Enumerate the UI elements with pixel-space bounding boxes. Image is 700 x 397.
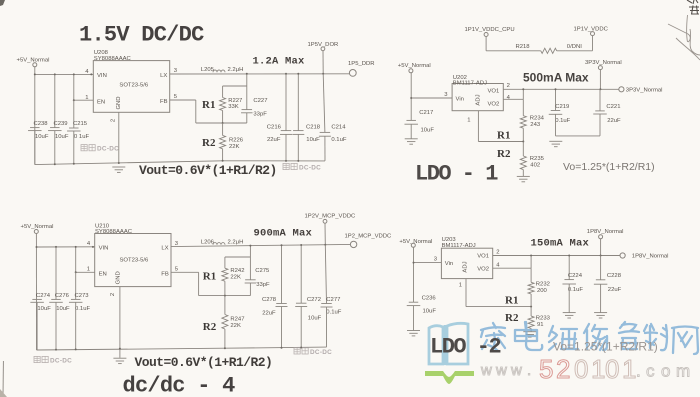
svg-text:Vo=1.25*(1+R2/R1): Vo=1.25*(1+R2/R1) xyxy=(563,161,655,173)
wire VIN rail xyxy=(35,73,94,75)
junction dot feed xyxy=(246,73,248,75)
wire FB stub xyxy=(170,99,196,101)
capacitor C227 xyxy=(246,86,248,110)
wire VO2 join vertical D xyxy=(530,256,532,269)
svg-text:10uF: 10uF xyxy=(35,134,49,140)
svg-text:C219: C219 xyxy=(555,104,569,110)
watermark char zi xyxy=(619,322,639,349)
svg-text:R2: R2 xyxy=(203,321,217,333)
wire FB to divider xyxy=(196,122,247,124)
svg-text:w: w xyxy=(510,362,522,379)
watermark book icon blue xyxy=(429,323,468,365)
op IC U210 box xyxy=(95,234,171,287)
svg-text:R1: R1 xyxy=(505,295,518,307)
wire C228 lower xyxy=(600,284,602,312)
capacitor C217 xyxy=(406,119,416,121)
svg-text:.: . xyxy=(636,362,641,381)
svg-text:R235: R235 xyxy=(530,156,545,162)
scan corner smudge bottom-left xyxy=(0,389,7,397)
wire C272 column xyxy=(300,245,302,303)
terminal 3P3V_Normal right xyxy=(619,87,624,92)
svg-text:DC-DC: DC-DC xyxy=(299,164,321,171)
pin dot VIN pin4 xyxy=(90,73,92,75)
svg-text:C227: C227 xyxy=(253,98,267,104)
svg-text:900mA Max: 900mA Max xyxy=(254,227,313,239)
ground symbol C236 xyxy=(407,330,420,332)
wire EN stub xyxy=(74,99,94,101)
svg-text:2: 2 xyxy=(111,119,117,122)
terminal +5V D xyxy=(411,243,415,247)
svg-text:VIN: VIN xyxy=(99,246,109,252)
wire VIN rail C xyxy=(37,246,95,248)
wire GND pin2 vertical xyxy=(118,112,120,163)
capacitor C239 xyxy=(50,127,60,129)
wire C236 lower xyxy=(413,306,415,331)
svg-text:C276: C276 xyxy=(55,293,70,299)
svg-text:ADJ: ADJ xyxy=(463,261,469,272)
svg-text:C224: C224 xyxy=(568,273,583,279)
handwriting vertical stroke xyxy=(686,15,689,42)
svg-text:w: w xyxy=(480,362,492,379)
ground symbol R235 xyxy=(517,175,530,177)
wire VO1 rail LDO1 xyxy=(503,88,619,90)
handwriting glyph corner 1 xyxy=(687,0,698,4)
wire R218 right xyxy=(557,50,593,52)
wire C277 column xyxy=(325,245,326,304)
wire C273 column upper xyxy=(75,247,77,272)
svg-text:R232: R232 xyxy=(536,282,550,288)
junction dot EN xyxy=(73,99,75,101)
svg-text:o: o xyxy=(661,362,670,381)
svg-text:FB: FB xyxy=(160,99,168,105)
junction dot rail C278 xyxy=(281,347,283,349)
svg-text:BM1117-ADJ: BM1117-ADJ xyxy=(453,81,487,87)
svg-text:+5V_Normal: +5V_Normal xyxy=(399,239,432,245)
wire FB stub C xyxy=(171,271,199,273)
resistor R226 xyxy=(222,123,224,135)
svg-text:3P3V_Normal: 3P3V_Normal xyxy=(585,60,622,66)
terminal 1P2V_MCP_VDDC xyxy=(323,219,327,223)
wire ADJ to divider D xyxy=(466,306,531,308)
svg-text:2: 2 xyxy=(507,83,510,89)
wire C277 lower xyxy=(326,307,328,347)
terminal +5V_Normal xyxy=(33,63,37,67)
svg-text:R233: R233 xyxy=(536,315,551,321)
wire VO1 rail D xyxy=(493,255,620,257)
svg-text:.: . xyxy=(527,362,531,379)
svg-text:R2: R2 xyxy=(202,137,216,149)
svg-text:10uF: 10uF xyxy=(56,306,70,312)
svg-text:33K: 33K xyxy=(228,104,239,110)
wire +5V vertical xyxy=(34,67,36,165)
handwriting curve 1 xyxy=(668,24,690,42)
svg-text:EN: EN xyxy=(97,100,105,106)
capacitor C218 xyxy=(293,130,304,132)
svg-text:C278: C278 xyxy=(262,297,277,303)
svg-text:R1: R1 xyxy=(202,99,215,111)
svg-text:0.1uF: 0.1uF xyxy=(555,118,570,124)
junction dot C218 xyxy=(297,73,299,75)
junction dot C219 xyxy=(555,88,557,90)
wire C217 lower xyxy=(410,124,412,139)
junction dot rail C216 xyxy=(285,160,287,162)
wire C221 bottom link xyxy=(556,135,601,137)
wire C215 column lower xyxy=(73,100,75,127)
wire C239 lower xyxy=(54,131,56,164)
svg-text:2: 2 xyxy=(110,293,116,296)
svg-text:GND: GND xyxy=(116,96,122,109)
svg-text:1.5V DC/DC: 1.5V DC/DC xyxy=(79,23,204,48)
capacitor C277 xyxy=(321,303,332,305)
svg-text:Vout=0.6V*(1+R1/R2): Vout=0.6V*(1+R1/R2) xyxy=(135,355,273,370)
svg-text:R1: R1 xyxy=(203,270,216,282)
junction dot VO join xyxy=(522,88,524,90)
wire R1C275 top rail xyxy=(225,256,251,258)
terminal 1P8V right xyxy=(620,253,625,258)
svg-text:243: 243 xyxy=(530,122,541,128)
svg-text:m: m xyxy=(676,362,690,381)
svg-text:33pF: 33pF xyxy=(253,112,267,118)
inductor L205 squiggle xyxy=(213,70,225,72)
wire C218 column xyxy=(297,74,299,131)
svg-text:22K: 22K xyxy=(229,144,240,150)
wire C274 lower xyxy=(36,302,38,350)
handwriting glyph corner 2 xyxy=(689,6,699,15)
svg-text:Vin: Vin xyxy=(456,96,464,102)
capacitor C273 xyxy=(71,298,81,300)
capacitor C278 xyxy=(276,303,287,305)
svg-text:LX: LX xyxy=(160,73,167,79)
junction dot rail pin2 C xyxy=(119,348,121,350)
wire VO2 stub xyxy=(503,98,523,100)
svg-text:1P2V_MCP_VDDC: 1P2V_MCP_VDDC xyxy=(305,213,356,219)
svg-text:1: 1 xyxy=(85,95,88,101)
ground symbol C224 xyxy=(563,312,576,314)
scan corner mark top-left xyxy=(0,0,5,6)
resistor R233 xyxy=(530,307,532,317)
svg-text:1: 1 xyxy=(459,282,462,288)
svg-text:L205: L205 xyxy=(201,67,215,73)
svg-text:1P5_DDR: 1P5_DDR xyxy=(348,61,375,67)
resistor R232 xyxy=(530,268,532,282)
resistor R235 xyxy=(522,142,524,157)
junction dot 1P8V rail xyxy=(600,255,602,257)
wire +5V vertical D xyxy=(413,247,415,302)
wire cpu vertical xyxy=(485,37,487,51)
svg-text:R227: R227 xyxy=(228,98,242,104)
wire vddc vertical xyxy=(592,36,594,51)
junction dot rail R226 xyxy=(222,160,224,162)
wire FB vertical C xyxy=(198,272,200,295)
watermark char wang xyxy=(672,327,698,355)
svg-text:R2: R2 xyxy=(497,148,511,160)
svg-text:1P1V_VDDC_CPU: 1P1V_VDDC_CPU xyxy=(465,27,515,33)
wire C273 column lower xyxy=(75,272,77,299)
ground symbol R233 xyxy=(523,331,536,333)
svg-text:VIN: VIN xyxy=(97,73,107,79)
ground rail C xyxy=(37,348,225,350)
junction dot Vin D xyxy=(413,262,415,264)
wire C238 lower xyxy=(34,131,36,165)
svg-text:R226: R226 xyxy=(229,138,244,144)
svg-text:DC-DC: DC-DC xyxy=(310,349,332,356)
wire VO2 stub D xyxy=(493,267,531,269)
terminal 1P2_MCP_VDDC xyxy=(350,241,356,247)
svg-text:91: 91 xyxy=(537,322,544,328)
stamp kaojin DC-DC 4 xyxy=(294,348,308,354)
wire 3P3V vertical xyxy=(599,70,601,90)
svg-text:w: w xyxy=(495,362,507,379)
terminal 1P5_DDR xyxy=(349,70,356,77)
ground rail input xyxy=(35,161,223,165)
svg-text:+5V_Normal: +5V_Normal xyxy=(21,224,54,230)
op IC U203 box xyxy=(441,248,492,278)
svg-text:1: 1 xyxy=(467,118,470,124)
ground symbol C217 xyxy=(405,138,418,140)
svg-text:0.1uF: 0.1uF xyxy=(331,137,346,143)
ground symbol U210 xyxy=(113,357,126,359)
wire C278 lower xyxy=(281,307,283,348)
capacitor C228 xyxy=(596,279,606,281)
svg-text:C238: C238 xyxy=(34,121,49,127)
terminal 1P8V top xyxy=(599,235,603,239)
op IC U202 box xyxy=(452,84,503,111)
capacitor C236 xyxy=(409,301,419,303)
resistor R234 xyxy=(522,99,524,115)
svg-text:LX: LX xyxy=(161,245,168,251)
wire LX output C xyxy=(171,244,351,246)
capacitor C216 xyxy=(281,130,292,132)
svg-text:C215: C215 xyxy=(73,121,88,127)
terminal 1P5V_DOR xyxy=(321,47,325,51)
wire +5V vertical C xyxy=(35,234,37,351)
wire C215 column upper xyxy=(73,74,75,100)
junction dot divider C xyxy=(224,295,226,297)
wire C239 column xyxy=(54,74,56,127)
pin dot VIN pin4 C xyxy=(92,246,94,248)
resistor R218 horizontal xyxy=(541,48,557,53)
svg-text:C239: C239 xyxy=(54,121,68,127)
svg-text:VO1: VO1 xyxy=(477,254,489,260)
wire R1C227 top rail xyxy=(223,85,247,87)
wire C278 column xyxy=(281,245,283,303)
junction dot divider LDO1 xyxy=(522,141,524,143)
svg-text:VO1: VO1 xyxy=(488,89,500,95)
wire ADJ vertical xyxy=(477,111,479,142)
wire C224 lower xyxy=(568,284,570,313)
svg-text:0.1uF: 0.1uF xyxy=(326,310,341,316)
svg-text:R218: R218 xyxy=(516,44,531,50)
svg-text:10uF: 10uF xyxy=(421,127,435,133)
junction dot C278 xyxy=(281,244,283,246)
wire 1P2V vertical xyxy=(324,223,326,245)
capacitor C221 xyxy=(595,110,605,112)
capacitor C274 xyxy=(32,298,42,300)
svg-text:Vin: Vin xyxy=(445,261,453,267)
svg-text:+5V_Normal: +5V_Normal xyxy=(17,58,50,64)
capacitor C219 xyxy=(551,110,561,112)
svg-text:R2: R2 xyxy=(505,312,519,324)
svg-text:C217: C217 xyxy=(419,110,433,116)
svg-text:EN: EN xyxy=(99,272,107,278)
wire FB vertical xyxy=(195,100,197,123)
ground symbol U208 xyxy=(112,166,125,168)
svg-text:c: c xyxy=(646,362,655,381)
svg-text:0/DNI: 0/DNI xyxy=(567,44,582,50)
svg-text:DC-DC: DC-DC xyxy=(50,357,72,364)
stamp kaojin DC-DC 2 xyxy=(283,163,297,169)
wire C214 column xyxy=(323,74,325,133)
svg-text:22K: 22K xyxy=(230,323,241,329)
wire C219 column xyxy=(555,89,557,110)
wire C224 column xyxy=(568,256,570,280)
svg-text:L206: L206 xyxy=(201,239,215,245)
svg-text:C236: C236 xyxy=(422,296,437,302)
svg-text:Vout=0.6V*(1+R1/R2): Vout=0.6V*(1+R1/R2) xyxy=(139,163,277,178)
terminal 1P1V_VDDC_CPU xyxy=(484,33,488,37)
junction dot rail C239 xyxy=(54,163,56,165)
svg-text:LDO -2: LDO -2 xyxy=(430,334,501,359)
svg-text:GND: GND xyxy=(115,271,121,284)
svg-text:C277: C277 xyxy=(326,297,340,303)
wire 1P8V vertical xyxy=(600,239,602,256)
wire C218 lower xyxy=(297,134,299,161)
svg-text:0 1uF: 0 1uF xyxy=(74,134,89,140)
svg-text:22K: 22K xyxy=(230,274,241,280)
svg-text:22uF: 22uF xyxy=(608,287,622,293)
watermark char liao xyxy=(644,324,667,350)
svg-text:10uF: 10uF xyxy=(55,134,69,140)
handwriting curve 3 xyxy=(676,38,700,60)
junction dot 3P3V rail xyxy=(599,88,601,90)
terminal 3P3V top xyxy=(598,66,602,70)
capacitor C276 xyxy=(51,298,61,300)
capacitor C238 xyxy=(30,127,40,129)
svg-text:VO2: VO2 xyxy=(488,101,500,107)
svg-text:1: 1 xyxy=(622,354,636,384)
svg-text:C274: C274 xyxy=(36,293,51,299)
wire ADJ vertical D xyxy=(465,279,467,307)
svg-text:10uF: 10uF xyxy=(308,316,322,322)
wire GND pin2 vertical C xyxy=(119,287,121,358)
svg-text:2.2μH: 2.2μH xyxy=(228,239,244,245)
svg-text:0.1uF: 0.1uF xyxy=(75,306,90,312)
wire ADJ to divider xyxy=(478,141,523,143)
svg-text:R247: R247 xyxy=(230,317,244,323)
resistor R247 xyxy=(224,296,226,315)
stamp kaojin DC-DC 1 xyxy=(81,145,95,151)
watermark char wei xyxy=(549,326,578,350)
svg-text:SY8088AAAC: SY8088AAAC xyxy=(94,56,132,62)
svg-text:C275: C275 xyxy=(255,268,270,274)
capacitor C215 xyxy=(69,127,79,129)
junction dot LX/1P5V xyxy=(322,73,324,75)
junction dot VIN xyxy=(34,73,36,75)
wire C276 column xyxy=(55,247,57,300)
svg-text:VO2: VO2 xyxy=(477,266,489,272)
junction dot C215 xyxy=(73,73,75,75)
wire R1C275 feed vertical xyxy=(249,246,251,257)
wire C215 lower xyxy=(73,131,75,164)
resistor R227 xyxy=(222,86,224,98)
svg-text:1P8V_Normal: 1P8V_Normal xyxy=(587,229,624,235)
capacitor C272 xyxy=(296,302,307,304)
svg-text:R242: R242 xyxy=(230,268,244,274)
wire C219 lower xyxy=(555,114,557,136)
capacitor C214 xyxy=(320,131,331,133)
wire C276 lower xyxy=(55,302,57,349)
junction dot feed C xyxy=(249,245,251,247)
svg-text:C216: C216 xyxy=(267,124,282,130)
svg-text:C273: C273 xyxy=(75,293,90,299)
svg-text:ADJ: ADJ xyxy=(476,94,482,105)
op IC U208 box xyxy=(93,61,169,113)
junction dot C224 xyxy=(568,255,570,257)
wire C216 lower xyxy=(285,134,287,161)
wire C216 column xyxy=(285,74,287,131)
watermark char jia xyxy=(481,323,505,351)
wire +5V vertical LDO1 xyxy=(410,73,412,121)
svg-text:SOT23-5/6: SOT23-5/6 xyxy=(119,82,149,88)
wire C228 column xyxy=(600,256,602,280)
wire C221 column xyxy=(599,89,601,111)
wire LX output xyxy=(170,73,350,75)
terminal 1P1V_VDDC xyxy=(591,32,595,36)
svg-text:1: 1 xyxy=(591,354,605,384)
inductor L206 squiggle xyxy=(213,243,225,245)
junction dot C276 xyxy=(55,246,57,248)
ground symbol C219 xyxy=(549,140,562,142)
svg-text:R1: R1 xyxy=(497,129,510,141)
svg-text:C272: C272 xyxy=(307,297,321,303)
svg-text:10uF: 10uF xyxy=(306,137,320,143)
svg-text:22uF: 22uF xyxy=(267,137,281,143)
capacitor C275 xyxy=(249,257,251,280)
junction dot rail C218 xyxy=(297,160,299,162)
svg-text:LDO - 1: LDO - 1 xyxy=(415,162,498,187)
svg-text:C221: C221 xyxy=(606,104,620,110)
junction dot VIN C xyxy=(36,246,38,248)
junction dot Vin branch xyxy=(410,97,412,99)
ground symbol C228 xyxy=(594,312,607,314)
junction dot rail C272 xyxy=(300,347,302,349)
svg-text:3P3V_Normal: 3P3V_Normal xyxy=(626,88,663,94)
svg-text:Vo=1.25*(1+R2/R1): Vo=1.25*(1+R2/R1) xyxy=(553,339,658,353)
watermark char dian xyxy=(515,322,542,350)
junction dot C239 xyxy=(54,73,56,75)
junction dot divider A xyxy=(222,122,224,124)
svg-text:SOT23-5/6: SOT23-5/6 xyxy=(120,257,150,263)
junction dot rail C215 xyxy=(73,163,75,165)
wire R218 net xyxy=(486,50,541,52)
svg-text:dc/dc - 4: dc/dc - 4 xyxy=(123,374,236,397)
svg-text:2: 2 xyxy=(496,249,499,255)
svg-text:500mA Max: 500mA Max xyxy=(523,70,589,84)
junction dot EN C xyxy=(75,271,77,273)
svg-text:0: 0 xyxy=(605,354,619,384)
svg-text:1P8V_Normal: 1P8V_Normal xyxy=(632,254,669,260)
wire C214 lower xyxy=(324,136,326,161)
wire VO2 join vertical xyxy=(522,89,524,99)
junction dot LX/1P2V xyxy=(324,244,326,246)
svg-text:SY8088AAAC: SY8088AAAC xyxy=(95,229,133,235)
wire C272 lower xyxy=(300,307,302,348)
svg-text:10uF: 10uF xyxy=(423,308,437,314)
wire Vin branch D xyxy=(414,262,442,264)
svg-text:1P2_MCP_VDDC: 1P2_MCP_VDDC xyxy=(345,234,393,240)
svg-text:1: 1 xyxy=(87,267,90,273)
svg-text:1.2A Max: 1.2A Max xyxy=(253,56,306,68)
